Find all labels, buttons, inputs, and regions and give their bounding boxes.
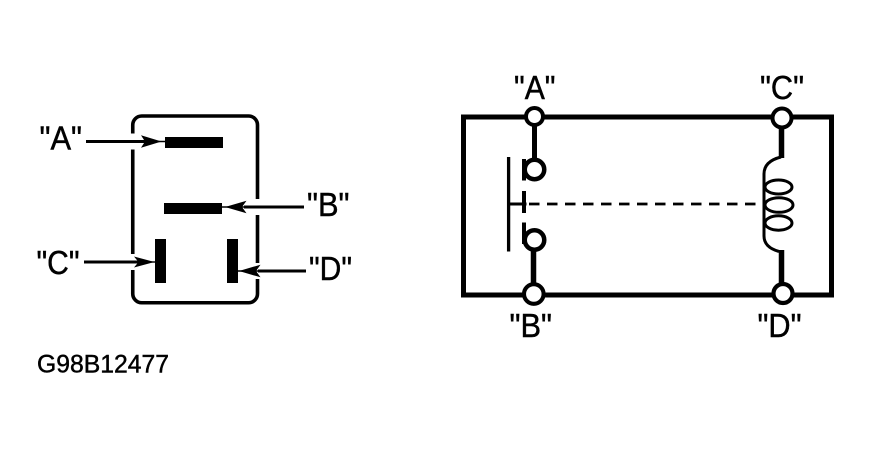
- svg-text:"B": "B": [510, 307, 553, 344]
- svg-text:"C": "C": [760, 69, 804, 106]
- svg-text:"D": "D": [309, 250, 352, 287]
- svg-text:G98B12477: G98B12477: [37, 351, 169, 379]
- svg-text:"D": "D": [758, 307, 802, 344]
- svg-text:"A": "A": [40, 120, 83, 157]
- svg-text:"B": "B": [307, 186, 350, 223]
- svg-text:"A": "A": [514, 69, 556, 106]
- svg-text:"C": "C": [37, 244, 80, 281]
